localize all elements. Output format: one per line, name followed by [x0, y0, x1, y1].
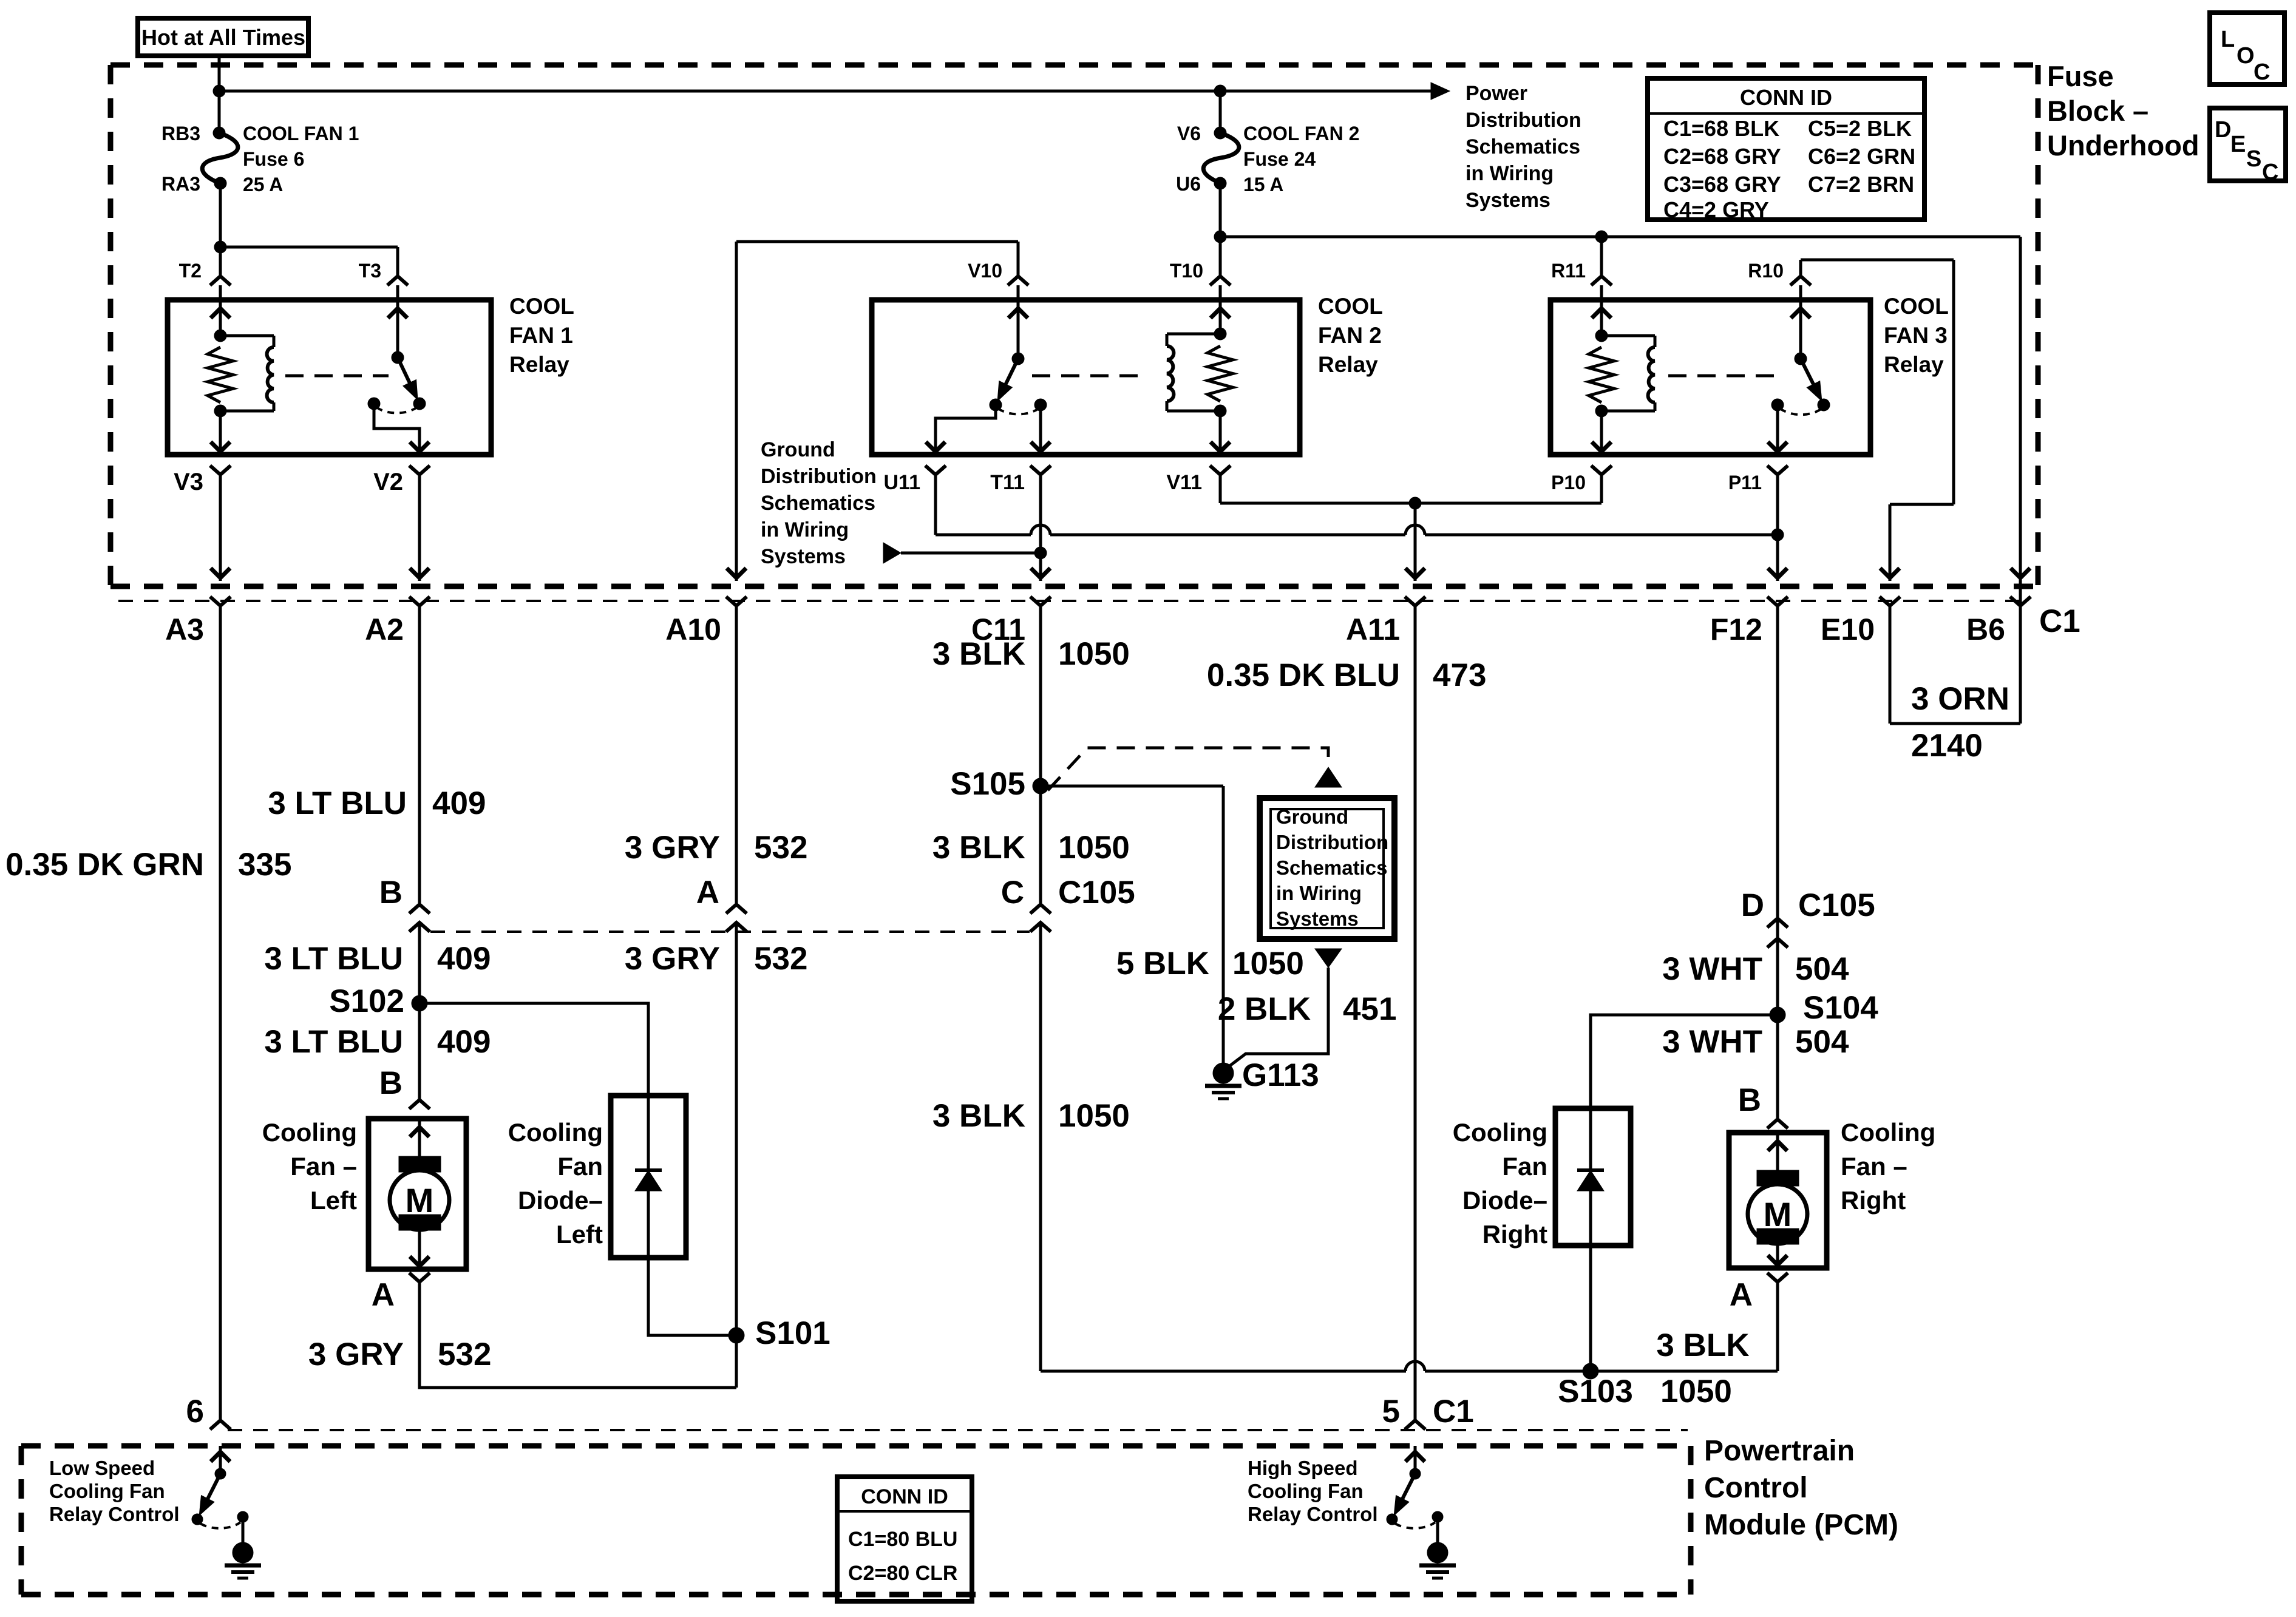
terminal T3 (relay 1)	[359, 260, 408, 300]
wire: C105-C to S103 to fan right A (3 BLK 1050)	[1041, 1361, 1778, 1371]
wire: hot bus to fuse 2	[1219, 91, 1222, 133]
svg-text:Fan: Fan	[557, 1152, 603, 1181]
power bus wire with arrow to Power Distribution	[219, 83, 1450, 100]
wire: U11 down and across to P11 junction (with hops)	[936, 475, 1778, 535]
wire label: 3 ORN 2140	[1911, 681, 2009, 764]
svg-text:O: O	[2237, 43, 2255, 69]
wire: F12 down to S104 and fan right B (3 WHT 504)	[1776, 606, 1779, 1119]
svg-text:Underhood: Underhood	[2047, 129, 2199, 161]
junction T11/ground pointer	[1034, 547, 1047, 559]
svg-text:A11: A11	[1346, 612, 1400, 646]
splice S102	[329, 983, 427, 1019]
svg-text:Fuse 6: Fuse 6	[243, 148, 304, 170]
terminal T2 (relay 1)	[179, 260, 231, 300]
svg-text:T3: T3	[359, 260, 381, 282]
relay 2 coil	[1167, 328, 1226, 417]
svg-text:B6: B6	[1966, 612, 2005, 646]
label: C1 connector id	[2039, 603, 2080, 639]
wire: C11 down to S105 and C105-C	[1039, 606, 1042, 1371]
svg-text:Cooling Fan: Cooling Fan	[49, 1480, 165, 1502]
svg-text:1050: 1050	[1058, 1098, 1130, 1134]
svg-text:A: A	[372, 1277, 395, 1313]
svg-text:Fan –: Fan –	[1841, 1152, 1907, 1181]
svg-text:Systems: Systems	[761, 545, 846, 568]
wire: S104 to diode right	[1591, 1015, 1778, 1108]
wire: E10 to B6 loop (3 ORN 2140)	[1890, 606, 2020, 724]
relay 2 coil out to V11	[1211, 411, 1230, 455]
svg-text:Control: Control	[1704, 1472, 1808, 1504]
svg-text:FAN 3: FAN 3	[1884, 323, 1948, 348]
svg-text:A: A	[1730, 1277, 1753, 1313]
junction on hot bus at fuse 1	[213, 85, 225, 97]
component: Cooling Fan Diode - Left	[611, 1096, 686, 1258]
svg-text:S103: S103	[1558, 1374, 1633, 1409]
svg-text:U11: U11	[884, 471, 921, 494]
svg-text:3 GRY: 3 GRY	[625, 941, 720, 977]
wire label: 3 LT BLU 409 (upper)	[268, 785, 486, 821]
svg-text:COOL FAN 1: COOL FAN 1	[243, 123, 359, 144]
relay 2 coil pin T10	[1211, 300, 1230, 334]
splice S104	[1770, 990, 1878, 1026]
svg-text:Powertrain: Powertrain	[1704, 1435, 1855, 1467]
svg-text:S101: S101	[755, 1315, 830, 1351]
label: Powertrain Control Module (PCM)	[1704, 1435, 1898, 1541]
wire: P11 down to F12	[1768, 475, 1787, 581]
wire: E10 arrow at border	[1880, 568, 1900, 578]
svg-text:3 BLK: 3 BLK	[932, 636, 1025, 672]
dashed reference from S105 to ground distribution	[1048, 748, 1342, 790]
relay 1 actuation dashed link	[285, 375, 389, 378]
svg-text:COOL: COOL	[1318, 294, 1383, 319]
pin B of cooling fan right	[1738, 1082, 1788, 1128]
label: Cooling Fan - Left	[262, 1118, 357, 1215]
svg-text:3 BLK: 3 BLK	[932, 830, 1025, 866]
PCM pin 5 and connector C1	[1382, 1394, 1474, 1429]
wire: fuse 1 to relay 1 T2/T3 tap	[220, 183, 398, 276]
svg-text:Relay Control: Relay Control	[1248, 1503, 1378, 1525]
svg-text:1050: 1050	[1232, 946, 1304, 981]
svg-text:R11: R11	[1551, 260, 1586, 282]
ground G113	[1205, 1057, 1319, 1099]
svg-text:T10: T10	[1170, 260, 1203, 282]
svg-text:3 LT BLU: 3 LT BLU	[264, 941, 403, 977]
svg-text:409: 409	[437, 941, 491, 977]
svg-text:RA3: RA3	[161, 173, 200, 195]
wire label: 3 BLK 1050 (bottom)	[1656, 1327, 1749, 1409]
svg-text:L: L	[2221, 27, 2235, 52]
wire: B6 arrow at border	[2011, 568, 2030, 578]
relay box: COOL FAN 2 Relay	[872, 300, 1300, 455]
svg-text:335: 335	[238, 847, 291, 883]
terminal T10 (relay 2)	[1170, 260, 1231, 300]
svg-text:Distribution: Distribution	[1466, 109, 1581, 132]
connector pin A11 (fuse block C1)	[1346, 597, 1425, 646]
svg-text:in Wiring: in Wiring	[761, 518, 849, 541]
connector pin C11 (fuse block C1)	[971, 597, 1051, 646]
svg-text:3 LT BLU: 3 LT BLU	[264, 1024, 403, 1060]
svg-text:Diode–: Diode–	[518, 1186, 603, 1215]
wire: R10 over relay 3 down to E10	[1801, 260, 1954, 581]
svg-text:3 LT BLU: 3 LT BLU	[268, 785, 407, 821]
svg-text:C2=80 CLR: C2=80 CLR	[848, 1562, 957, 1585]
wire: V2 down to A2	[410, 475, 429, 581]
svg-text:1050: 1050	[1058, 636, 1130, 672]
svg-text:Ground: Ground	[761, 438, 835, 461]
svg-text:S: S	[2246, 146, 2261, 172]
svg-text:Fan –: Fan –	[290, 1152, 357, 1181]
svg-text:409: 409	[432, 785, 486, 821]
Powertrain Control Module dashed border	[21, 1446, 1691, 1595]
relay 2 switch (common V10, arm to U11 contact)	[926, 300, 1050, 455]
svg-text:Fan: Fan	[1502, 1152, 1547, 1181]
svg-text:Relay: Relay	[1318, 352, 1378, 377]
svg-text:Right: Right	[1483, 1220, 1547, 1249]
label: Cooling Fan - Right	[1841, 1118, 1935, 1215]
wire: fan left A to S101 (3 GRY 532)	[419, 1282, 736, 1388]
wire label: 3 LT BLU 409 (lower)	[264, 1024, 491, 1060]
relay 1 coil out to V3	[211, 411, 230, 455]
svg-text:Schematics: Schematics	[1276, 856, 1387, 879]
junction at T2 tap	[214, 241, 226, 253]
svg-text:U6: U6	[1176, 173, 1201, 195]
wire: diode right down to S103	[1589, 1246, 1592, 1371]
svg-text:in Wiring: in Wiring	[1276, 882, 1362, 904]
svg-text:Fuse 24: Fuse 24	[1243, 148, 1316, 170]
svg-text:1050: 1050	[1058, 830, 1130, 866]
wire label: 3 BLK 1050 (below S105)	[932, 830, 1130, 866]
wire label: 3 WHT 504 (lower)	[1662, 1024, 1849, 1060]
wire label: 3 GRY 532 (upper)	[625, 830, 808, 866]
pin B of cooling fan left	[379, 1065, 430, 1109]
svg-text:V10: V10	[968, 260, 1002, 282]
svg-text:C2=68 GRY: C2=68 GRY	[1663, 144, 1781, 169]
wire: T11 down to C11	[1031, 475, 1050, 581]
relay 3 switch (common R10, arm to NO contact)	[1768, 300, 1830, 455]
svg-text:6: 6	[186, 1394, 204, 1429]
splice S103	[1558, 1363, 1633, 1409]
ground distribution pointer wire with arrow	[883, 543, 1041, 563]
PCM connector thin dashed line	[228, 1429, 1688, 1431]
svg-text:3 BLK: 3 BLK	[1656, 1327, 1749, 1363]
svg-text:Hot at All Times: Hot at All Times	[141, 25, 305, 50]
svg-text:T11: T11	[990, 471, 1025, 494]
inline connector B of C105	[379, 875, 430, 932]
label box: Hot at All Times	[138, 18, 308, 56]
svg-text:C6=2 GRN: C6=2 GRN	[1808, 144, 1915, 169]
svg-text:0.35 DK GRN: 0.35 DK GRN	[5, 847, 204, 883]
svg-text:Cooling: Cooling	[1841, 1118, 1935, 1147]
component: Cooling Fan - Right	[1729, 1133, 1827, 1268]
svg-text:1050: 1050	[1660, 1374, 1732, 1409]
svg-text:FAN 2: FAN 2	[1318, 323, 1382, 348]
fuse block connector C1 thin dashed line	[118, 600, 2031, 602]
label: COOL FAN 3 Relay	[1884, 294, 1949, 377]
svg-text:G113: G113	[1242, 1057, 1319, 1093]
svg-text:Relay: Relay	[509, 352, 569, 377]
fuse: COOL FAN 2 Fuse 24 15 A (V6/U6)	[1176, 123, 1359, 195]
svg-text:Module (PCM): Module (PCM)	[1704, 1509, 1898, 1541]
label: Low Speed Cooling Fan Relay Control	[49, 1457, 180, 1525]
relay 1 resistor	[208, 347, 233, 402]
terminal P11 (relay 3)	[1728, 466, 1788, 493]
pin A of cooling fan left	[372, 1273, 430, 1313]
svg-text:451: 451	[1343, 991, 1396, 1027]
relay 3 resistor	[1589, 347, 1614, 402]
relay 2 resistor	[1207, 346, 1233, 401]
box: Ground Distribution Schematics in Wiring Systems	[1260, 798, 1394, 939]
svg-text:2 BLK: 2 BLK	[1218, 991, 1311, 1027]
wire label: 5 BLK 1050	[1116, 946, 1304, 981]
svg-text:C3=68 GRY: C3=68 GRY	[1663, 172, 1781, 197]
svg-text:CONN ID: CONN ID	[1740, 85, 1832, 110]
svg-text:0.35 DK BLU: 0.35 DK BLU	[1207, 657, 1400, 693]
svg-text:Left: Left	[556, 1220, 603, 1249]
svg-text:V2: V2	[373, 469, 403, 495]
svg-text:532: 532	[754, 830, 807, 866]
svg-text:C: C	[1001, 875, 1024, 910]
svg-text:COOL: COOL	[509, 294, 574, 319]
svg-text:Low Speed: Low Speed	[49, 1457, 155, 1479]
svg-text:High Speed: High Speed	[1248, 1457, 1358, 1479]
svg-text:V6: V6	[1177, 123, 1201, 144]
svg-text:C: C	[2254, 59, 2270, 85]
CONN ID table (PCM)	[837, 1477, 972, 1601]
svg-text:3 WHT: 3 WHT	[1662, 951, 1762, 987]
svg-text:COOL: COOL	[1884, 294, 1949, 319]
svg-text:A2: A2	[365, 612, 404, 646]
svg-text:B: B	[379, 1065, 402, 1101]
wire: A10 riser to V10 (relay 2 common feed)	[736, 242, 1018, 581]
svg-text:D: D	[1741, 887, 1764, 923]
svg-text:A3: A3	[165, 612, 204, 646]
svg-text:R10: R10	[1748, 260, 1784, 282]
svg-text:504: 504	[1795, 951, 1849, 987]
svg-text:M: M	[406, 1181, 434, 1219]
svg-text:D: D	[2215, 117, 2231, 143]
terminal V10 (relay 2)	[968, 260, 1028, 300]
svg-text:A10: A10	[665, 612, 721, 646]
svg-text:409: 409	[437, 1024, 491, 1060]
svg-text:C4=2 GRY: C4=2 GRY	[1663, 197, 1769, 222]
svg-text:P10: P10	[1551, 472, 1586, 493]
svg-text:3 GRY: 3 GRY	[308, 1337, 404, 1372]
wire: fuse 2 down to T10 and feed bus to R11 and B6	[1220, 183, 2020, 606]
component: Cooling Fan Diode - Right	[1555, 1108, 1631, 1246]
svg-text:C1=80 BLU: C1=80 BLU	[848, 1528, 957, 1551]
svg-text:2140: 2140	[1911, 728, 1983, 764]
svg-text:3 ORN: 3 ORN	[1911, 681, 2009, 717]
wire label: 2 BLK 451	[1218, 991, 1397, 1027]
junction fuse2/T10	[1214, 231, 1226, 243]
PCM high speed cooling fan relay control switch	[1387, 1446, 1443, 1542]
connector pin A3 (fuse block C1)	[165, 597, 231, 646]
svg-text:F12: F12	[1710, 612, 1762, 646]
svg-text:473: 473	[1433, 657, 1486, 693]
svg-text:C105: C105	[1798, 887, 1875, 923]
svg-text:FAN 1: FAN 1	[509, 323, 573, 348]
svg-text:Cooling Fan: Cooling Fan	[1248, 1480, 1364, 1502]
splice S101	[729, 1315, 830, 1351]
svg-text:532: 532	[438, 1337, 491, 1372]
svg-text:Diode–: Diode–	[1462, 1186, 1547, 1215]
svg-text:S104: S104	[1803, 990, 1878, 1026]
svg-text:3 WHT: 3 WHT	[1662, 1024, 1762, 1060]
label: High Speed Cooling Fan Relay Control	[1248, 1457, 1378, 1525]
svg-text:M: M	[1764, 1195, 1792, 1233]
wire: S102 to diode left	[419, 1003, 648, 1096]
relay box: COOL FAN 3 Relay	[1550, 300, 1870, 455]
svg-text:3 GRY: 3 GRY	[625, 830, 720, 866]
svg-text:Relay Control: Relay Control	[49, 1503, 180, 1525]
svg-text:Cooling: Cooling	[1453, 1118, 1547, 1147]
connector pin B6 (fuse block C1)	[1966, 597, 2031, 646]
svg-text:P11: P11	[1728, 472, 1762, 493]
wire: A11 down to PCM pin 5 (0.35 DK BLU 473)	[1414, 606, 1417, 1420]
label: Cooling Fan Diode - Left	[508, 1118, 603, 1249]
svg-text:Power: Power	[1466, 82, 1527, 105]
splice S105	[950, 766, 1048, 802]
wire label: 3 BLK 1050 (top)	[932, 636, 1130, 672]
wire label: 0.35 DK BLU 473	[1207, 657, 1487, 693]
svg-text:T2: T2	[179, 260, 202, 282]
svg-text:E10: E10	[1821, 612, 1875, 646]
svg-text:RB3: RB3	[161, 123, 200, 144]
relay 2 actuation dashed link	[1032, 375, 1149, 378]
svg-text:S102: S102	[329, 983, 404, 1019]
connector pin E10 (fuse block C1)	[1821, 597, 1900, 646]
relay 3 actuation dashed link	[1668, 375, 1785, 378]
junction A11 tap	[1409, 497, 1421, 509]
svg-text:E: E	[2230, 132, 2246, 157]
junction on hot bus at fuse 2	[1214, 85, 1226, 97]
terminal P10 (relay 3)	[1551, 466, 1612, 493]
wire: diode left to S101	[648, 1258, 736, 1335]
connector pin F12 (fuse block C1)	[1710, 597, 1788, 646]
svg-text:Left: Left	[310, 1186, 357, 1215]
svg-text:504: 504	[1795, 1024, 1849, 1060]
label: Cooling Fan Diode - Right	[1453, 1118, 1547, 1249]
svg-text:S105: S105	[950, 766, 1025, 802]
svg-text:25 A: 25 A	[243, 174, 283, 195]
svg-text:Fuse: Fuse	[2047, 60, 2114, 92]
svg-text:5: 5	[1382, 1394, 1400, 1429]
svg-text:Cooling: Cooling	[262, 1118, 357, 1147]
relay 1 coil branch pin T2 (male arrow)	[211, 300, 230, 336]
svg-text:Cooling: Cooling	[508, 1118, 603, 1147]
svg-text:C1: C1	[2039, 603, 2080, 639]
wire: S105 to G113 (5 BLK 1050)	[1041, 786, 1223, 1073]
terminal R10 (relay 3)	[1748, 260, 1811, 300]
PCM high speed switch ground	[1419, 1542, 1456, 1578]
svg-text:Distribution: Distribution	[761, 465, 877, 488]
svg-text:CONN ID: CONN ID	[861, 1485, 948, 1508]
svg-text:15 A: 15 A	[1243, 174, 1283, 195]
junction P11/U11	[1771, 529, 1784, 541]
wire: V11 to P10 tie with A11 tap	[1220, 475, 1601, 503]
svg-text:C7=2 BRN: C7=2 BRN	[1808, 172, 1914, 197]
svg-text:V11: V11	[1166, 471, 1202, 494]
svg-text:V3: V3	[174, 469, 203, 495]
inline connector C of C105	[1001, 875, 1135, 932]
relay 3 coil	[1595, 330, 1655, 417]
relay 1 switch (common T3, arm to NO contact)	[368, 300, 429, 455]
relay 1 coil	[214, 330, 274, 417]
svg-text:C1: C1	[1433, 1394, 1474, 1429]
wire label: 3 LT BLU 409 (middle)	[264, 941, 491, 977]
terminal R11 (relay 3)	[1551, 260, 1612, 300]
svg-text:Block –: Block –	[2047, 95, 2148, 127]
relay box: COOL FAN 1 Relay	[168, 300, 491, 455]
PCM low speed cooling fan relay control switch	[192, 1446, 248, 1542]
label: Power Distribution Schematics in Wiring Systems	[1466, 82, 1581, 212]
terminal T11 (relay 2)	[990, 466, 1051, 494]
inline connector D of C105	[1741, 887, 1875, 947]
DESC legend box	[2210, 108, 2286, 185]
component: Cooling Fan - Left	[369, 1119, 466, 1269]
PCM low speed switch ground	[225, 1542, 261, 1578]
svg-text:B: B	[1738, 1082, 1761, 1118]
svg-text:Schematics: Schematics	[1466, 135, 1580, 158]
fuse: COOL FAN 1 Fuse 6 25 A (RB3/RA3)	[161, 123, 359, 195]
svg-text:5 BLK: 5 BLK	[1116, 946, 1209, 981]
svg-text:C5=2 BLK: C5=2 BLK	[1808, 116, 1912, 141]
wire: hot feed from label box down	[218, 56, 221, 133]
svg-text:COOL FAN 2: COOL FAN 2	[1243, 123, 1359, 144]
wire: fan right A down to S103 run	[1776, 1282, 1779, 1371]
wire label: 3 GRY 532 (lower)	[625, 941, 808, 977]
svg-text:C: C	[2262, 160, 2278, 185]
wire label: 3 WHT 504 (upper)	[1662, 951, 1849, 987]
svg-text:B: B	[379, 875, 402, 910]
C105 inline connector dashed line	[430, 931, 1030, 933]
wire: ground distribution to G113 (2 BLK 451)	[1223, 949, 1342, 1071]
terminal V11 (relay 2)	[1166, 466, 1231, 494]
label: Fuse Block - Underhood	[2047, 60, 2199, 161]
terminal U11 (relay 2)	[884, 466, 946, 494]
svg-text:Systems: Systems	[1276, 907, 1359, 930]
relay 3 coil pin R11	[1592, 300, 1611, 336]
pin A of cooling fan right	[1730, 1273, 1788, 1313]
inline connector A of C105	[696, 875, 747, 932]
Fuse Block - Underhood dashed border	[110, 65, 2038, 586]
CONN ID table (fuse block underhood)	[1648, 78, 1924, 222]
terminal V2 (relay 1)	[373, 466, 430, 495]
svg-text:Schematics: Schematics	[761, 492, 875, 515]
wire: A3 to PCM pin 6 (0.35 DK GRN 335)	[219, 606, 222, 1420]
svg-text:Systems: Systems	[1466, 189, 1550, 212]
svg-text:in Wiring: in Wiring	[1466, 162, 1554, 185]
label: COOL FAN 2 Relay	[1318, 294, 1383, 377]
LOC legend box	[2210, 13, 2284, 85]
svg-text:Right: Right	[1841, 1186, 1906, 1215]
svg-text:C105: C105	[1058, 875, 1135, 910]
connector pin A2 (fuse block C1)	[365, 597, 430, 646]
wire label: 3 GRY 532 (fan left A)	[308, 1337, 492, 1372]
svg-text:A: A	[696, 875, 719, 910]
terminal V3 (relay 1)	[174, 466, 231, 495]
wire: A2 down to S102 and fan B	[418, 606, 421, 1100]
svg-text:Distribution: Distribution	[1276, 831, 1388, 853]
svg-text:C1=68 BLK: C1=68 BLK	[1663, 116, 1779, 141]
connector pin A10 (fuse block C1)	[665, 597, 747, 646]
svg-text:Relay: Relay	[1884, 352, 1944, 377]
wire: A10 arrow at border	[727, 568, 746, 578]
wire label: 3 BLK 1050 (bottom run)	[932, 1098, 1130, 1134]
wire: A10 down to S101 (3 GRY 532)	[735, 606, 738, 1388]
wire: A11 down to border	[1405, 503, 1425, 581]
wire label: 0.35 DK GRN 335	[5, 847, 291, 883]
wire: V3 down to A3	[211, 475, 230, 581]
